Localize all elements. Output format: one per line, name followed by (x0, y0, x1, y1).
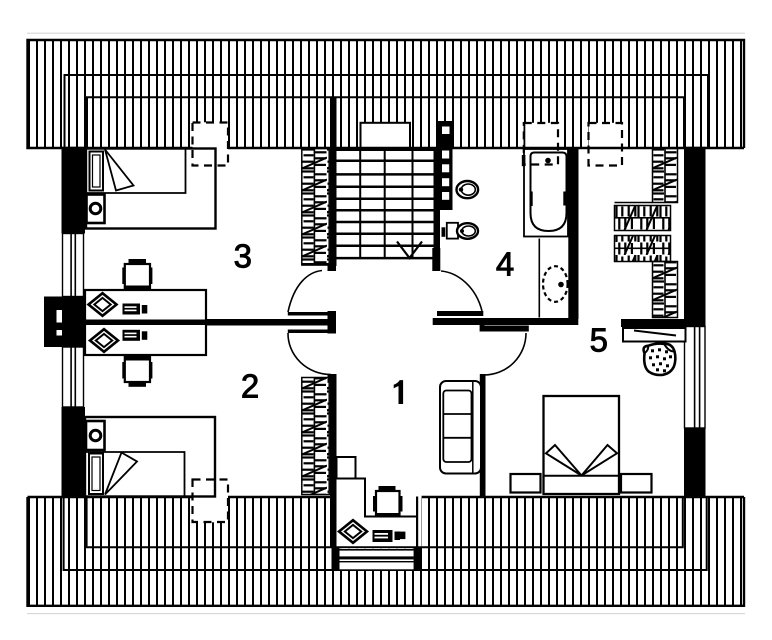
sofa room1 (440, 381, 481, 474)
closet strip vertical upper (653, 149, 678, 203)
balcony end block right (414, 547, 422, 570)
chair room3 (89, 293, 117, 316)
closet strip horizontal upper (615, 206, 671, 231)
closet partition line (615, 202, 653, 204)
bed3 pillow (90, 152, 104, 191)
stair east wall cap (432, 248, 440, 271)
monitor room1 (379, 486, 396, 490)
faint eaves line top (27, 33, 745, 34)
chimney2 dashed (524, 123, 558, 165)
keyboard room1 (373, 530, 393, 542)
wall line over desk (85, 320, 206, 326)
stairs (336, 150, 434, 258)
label 1 (394, 380, 403, 404)
window W2 glass lines (70, 347, 72, 407)
stairwell west wall cap (328, 264, 337, 271)
washbasin (543, 266, 568, 302)
wicker chair room5 (644, 344, 676, 375)
closet strip horizontal lower (615, 236, 671, 262)
chair room1 (339, 520, 367, 543)
window W2 frame (63, 347, 84, 407)
hall west cap (328, 311, 337, 334)
door arc room5 (484, 333, 526, 375)
corridor lower bar (485, 326, 529, 332)
balcony well (340, 548, 414, 569)
stairwell west wall (330, 98, 337, 267)
chimney1 dashed (193, 123, 229, 166)
balcony end block left (332, 547, 340, 570)
bed5 pillows (546, 445, 582, 476)
keyboard room3 (123, 304, 141, 315)
balcony rail thick (340, 556, 414, 559)
right wall upper (684, 147, 706, 327)
door arc room2 (288, 333, 331, 375)
left wall upper (62, 147, 86, 234)
chair room2 (90, 329, 118, 352)
wall rooms2-3 thick bar (85, 319, 336, 326)
top roof band hatch (28, 41, 744, 148)
window W1 glass lines (70, 234, 72, 297)
corridor south thick bar (433, 318, 579, 325)
bed room5 (544, 396, 620, 494)
chimney4 dashed (193, 480, 229, 523)
nightstand room3 (87, 195, 105, 224)
bed2 blanket fold (105, 453, 137, 495)
washbasin partition (538, 239, 540, 318)
window W1 frame (63, 234, 84, 297)
duct below band (440, 148, 453, 210)
corridor jog cap (480, 323, 485, 332)
duct in band (438, 121, 453, 148)
corridor north thin bar (437, 311, 483, 316)
chimney3 dashed (589, 123, 623, 166)
right wall lower (684, 428, 706, 497)
wall rooms2-3 south face bar (288, 330, 330, 334)
window W3 frame (685, 327, 706, 429)
bottom band dormer pocket (337, 496, 422, 547)
top band nested outline inner (87, 97, 684, 148)
bed room3 (86, 149, 216, 229)
svg-text:3: 3 (234, 237, 252, 274)
stair arrow (397, 242, 422, 259)
balcony rail thin1 (340, 549, 414, 551)
shelf room5 (623, 328, 686, 342)
monitor room3 (129, 259, 147, 263)
nightstand room2 (86, 421, 105, 450)
wall rooms1-5 (480, 374, 486, 497)
bathroom east wall (568, 148, 578, 319)
wall rooms1-2 (330, 374, 337, 547)
double desk rooms2-3 (85, 290, 206, 355)
top band border (28, 40, 745, 148)
nightstand room5 right (621, 474, 652, 493)
desk room1 outline (337, 479, 417, 517)
toilet (457, 181, 479, 198)
hall cabinet room1 (337, 457, 356, 479)
top band notch chimney1 (193, 122, 229, 148)
balcony rail thin2 (340, 561, 414, 562)
door arc bathroom (441, 271, 482, 311)
bidet (447, 223, 458, 239)
dormer pocket right edge line (416, 497, 418, 548)
bottom band notch chimney4 (193, 497, 229, 523)
bath tub (524, 149, 568, 237)
room labels (234, 237, 608, 404)
bed room2 (85, 417, 215, 497)
bottom band border (28, 497, 745, 606)
svg-text:5: 5 (590, 322, 608, 359)
bottom roof band hatch (28, 498, 744, 607)
top band notch chimney2 (524, 123, 558, 149)
keyboard room2 (123, 330, 141, 341)
door arc room3 (288, 271, 322, 313)
nightstand room5 left (511, 474, 541, 493)
wardrobe strip room2 (302, 378, 329, 495)
closet south bar (621, 319, 684, 327)
bottom band nested outline outer (64, 497, 707, 570)
left wall lower (62, 407, 86, 497)
top band notch stairs skylight (361, 123, 411, 149)
svg-text:2: 2 (241, 367, 259, 404)
window W3 glass lines (694, 327, 696, 429)
wall rooms2-3 north face bar (288, 312, 330, 316)
faint eaves line bottom (27, 613, 745, 614)
svg-text:4: 4 (496, 245, 514, 282)
top band nested outline outer (65, 75, 709, 148)
left chimney block (44, 297, 85, 348)
monitor room2 (125, 357, 150, 382)
bed3 blanket fold (105, 150, 134, 191)
bed2 pillow (89, 454, 103, 495)
closet strip vertical lower (653, 262, 678, 318)
bottom band nested outline inner (87, 497, 683, 547)
stair east wall (434, 148, 441, 248)
wardrobe strip room3 (302, 149, 329, 266)
top band notch chimney3 (589, 123, 623, 149)
